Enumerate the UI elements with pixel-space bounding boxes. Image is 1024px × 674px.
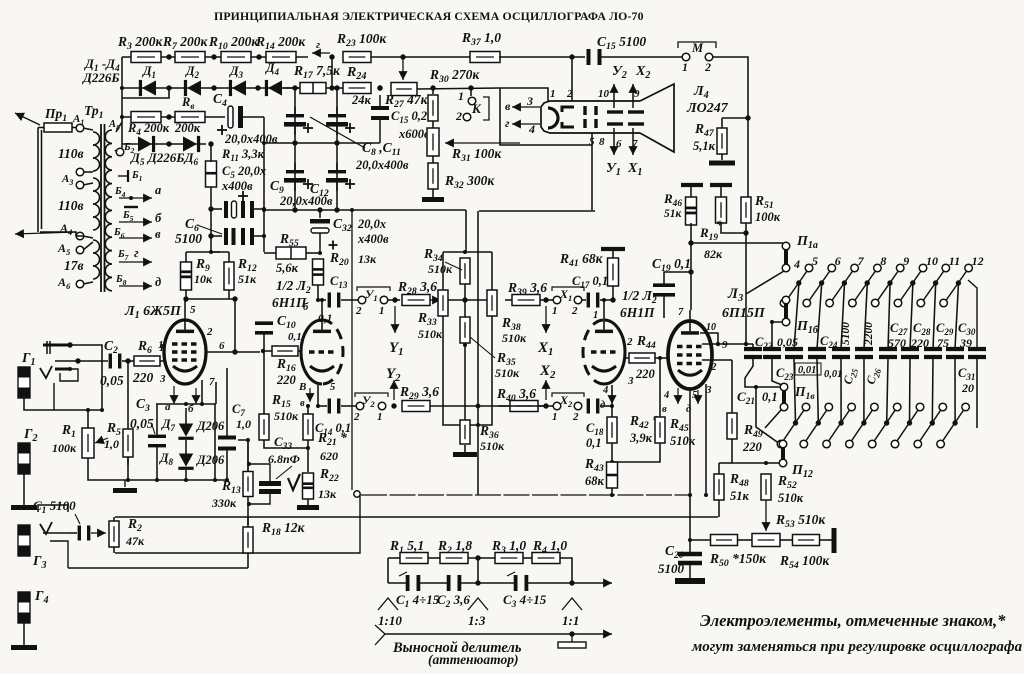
- svg-text:1: 1: [377, 411, 383, 423]
- wire pin2 lead: [215, 382, 217, 404]
- terminal X2-2: [574, 402, 582, 410]
- resistor R30 vertical: [428, 95, 438, 121]
- diode Д7: [178, 424, 193, 440]
- junction dot R21 bot: [306, 446, 310, 450]
- switch П1в contact 8 upper: [871, 403, 879, 411]
- label ЛО247: [686, 101, 729, 116]
- junction dots node299: [183, 296, 237, 301]
- wire HV bus y210: [264, 209, 466, 211]
- label Б2: [123, 142, 135, 155]
- label R4 200к: [127, 121, 170, 137]
- switch П1в contact 9 upper: [893, 403, 901, 411]
- junction dot C18R42: [610, 404, 614, 408]
- label 2 x2: [572, 411, 579, 423]
- wire R42 bottom: [611, 443, 613, 462]
- label Д4: [265, 61, 280, 77]
- arrow att out2: [572, 629, 612, 638]
- label 1 y1: [379, 305, 385, 317]
- label R28 3,6: [397, 279, 437, 297]
- label R1: [61, 422, 76, 440]
- label Л4: [693, 84, 709, 101]
- svg-text:47к: 47к: [125, 534, 145, 548]
- capacitor C3 0,05: [148, 435, 166, 448]
- label A3: [61, 173, 73, 187]
- pointer C1: [75, 514, 80, 524]
- switch П1в contact 10 upper: [916, 403, 924, 411]
- terminal A5: [76, 246, 84, 254]
- tap Б5 bar: [124, 206, 138, 208]
- wire shield y412: [24, 398, 102, 410]
- cap bar R47: [709, 161, 735, 166]
- label R23 100к: [336, 31, 387, 49]
- label R19 star: [716, 217, 723, 232]
- wire C6 stub: [211, 235, 222, 237]
- svg-text:4: 4: [793, 257, 800, 271]
- wire R50 to R53: [738, 539, 752, 541]
- wire П1в arm down: [765, 410, 781, 428]
- CRT plate Y bottom: [607, 122, 623, 125]
- switch П1в contact 6 lower: [800, 440, 808, 448]
- label C17 0,1: [572, 274, 608, 290]
- label R27 47к: [384, 92, 429, 110]
- svg-text:100к: 100к: [52, 441, 77, 455]
- label 10 pin Л3: [706, 322, 716, 333]
- label pin6 Л1: [219, 340, 225, 352]
- label R36: [479, 423, 499, 441]
- wire C16 to M: [601, 56, 682, 58]
- wire C31 bottom: [976, 359, 978, 428]
- wire R19 top: [720, 185, 722, 197]
- resistor R7 200к: [175, 52, 205, 63]
- capacitor bank C29: [924, 349, 942, 357]
- label Rв 200к: [174, 121, 201, 135]
- wire C19 down: [663, 296, 665, 318]
- switch П1в contact 7 upper: [848, 403, 856, 411]
- tap г arrow: [119, 257, 152, 266]
- junction dot П1б: [770, 320, 774, 324]
- capacitor C5 20,0x400в: [224, 191, 264, 218]
- junction dots diode row: [166, 54, 261, 90]
- wire R42 top: [611, 406, 613, 418]
- wire R12 bottom: [228, 290, 230, 299]
- label C14 0,1: [315, 421, 351, 437]
- cap bar above R46: [681, 183, 703, 187]
- label Х1 crt: [627, 161, 642, 178]
- label У1 crt: [606, 161, 621, 178]
- wire D5 row y144: [122, 143, 206, 145]
- label 220: [910, 336, 929, 350]
- pointer C3: [152, 425, 155, 434]
- resistor R50 150к: [711, 535, 738, 546]
- svg-text:3: 3: [526, 94, 533, 108]
- resistor R38 510к: [487, 290, 497, 316]
- transformer primary winding upper: [93, 132, 100, 171]
- junction dot 691-243: [688, 240, 693, 245]
- junction dot Rв: [120, 86, 214, 147]
- wire cap to П1в dot 10: [909, 359, 912, 423]
- svg-text:в: в: [662, 404, 667, 415]
- label 2 y2: [353, 411, 360, 423]
- svg-text:1:3: 1:3: [468, 613, 486, 628]
- label R7 200к: [162, 34, 209, 52]
- wire Л3 cath down: [689, 389, 691, 540]
- junction dot y1: [392, 297, 397, 302]
- label R52: [777, 473, 797, 491]
- wire cap to П1в dot 6: [817, 359, 818, 423]
- label 5 pin Л2l: [330, 382, 335, 393]
- terminal bar R54: [832, 528, 837, 553]
- junction dots bus210: [262, 207, 354, 238]
- label Х2 big: [539, 363, 556, 381]
- terminal Y2-1: [378, 402, 386, 410]
- label а: [155, 183, 161, 197]
- svg-text:100к: 100к: [755, 210, 781, 224]
- label R18 12к: [261, 520, 306, 538]
- wire Л2l cath: [317, 385, 319, 406]
- label 1/2 Л2 left: [276, 278, 311, 296]
- arrow into R31: [445, 138, 520, 147]
- svg-text:ПРИНЦИПИАЛЬНАЯ ЭЛЕКТРИЧЕСКАЯ С: ПРИНЦИПИАЛЬНАЯ ЭЛЕКТРИЧЕСКАЯ СХЕМА ОСЦИЛ…: [214, 9, 644, 23]
- resistor R28 3,6: [402, 295, 430, 306]
- label Y1 big: [389, 340, 404, 358]
- svg-text:1: 1: [552, 305, 558, 317]
- label Б6: [113, 227, 125, 240]
- capacitor C12: [326, 163, 355, 191]
- label R36 val: [480, 439, 505, 453]
- label C13 val: [318, 313, 332, 325]
- label R33: [417, 310, 437, 328]
- wire R13 mid: [247, 440, 249, 472]
- resistor R17 7,5к: [300, 83, 326, 94]
- svg-text:1: 1: [458, 89, 464, 103]
- wire C2 node down: [127, 361, 129, 465]
- arrow heater в: [512, 102, 540, 111]
- wire R22 bottom: [307, 499, 309, 505]
- note line 1: [700, 611, 1006, 630]
- wire R41 top: [612, 249, 614, 258]
- label 4 crt: [528, 122, 535, 136]
- label 0,05: [777, 335, 798, 349]
- wire A6 stub: [83, 282, 93, 284]
- resistor R35 510к: [460, 317, 470, 343]
- bus y553: [115, 495, 360, 553]
- svg-text:2: 2: [572, 411, 579, 423]
- wire П12 feed: [756, 387, 780, 444]
- wire Г2 ground: [11, 474, 37, 510]
- switch arm 6: [809, 271, 830, 301]
- label 3 pin Л3: [705, 384, 712, 396]
- wire Л1 plate up: [184, 299, 186, 320]
- resistor Rв 200к: [175, 112, 205, 123]
- svg-text:510к: 510к: [418, 327, 443, 341]
- ground C20: [675, 578, 705, 584]
- wire cap to П1в dot 5: [794, 359, 796, 423]
- svg-text:2: 2: [455, 109, 462, 123]
- label П12: [791, 463, 813, 480]
- chevron 1:3: [468, 598, 488, 610]
- wire R55 left: [264, 252, 276, 254]
- resistor R48 51к: [714, 474, 724, 500]
- label R32 300к: [444, 173, 495, 191]
- pointer R34: [445, 262, 462, 270]
- junction dot g1: [67, 342, 80, 371]
- wire R4 row y117: [122, 116, 225, 118]
- wire to П1а: [691, 242, 783, 244]
- capacitor bank C22: [744, 349, 762, 357]
- cap bar above R41: [601, 247, 625, 251]
- junction dot 235-352: [232, 349, 237, 354]
- capacitor C16 5100: [587, 49, 602, 65]
- svg-text:5100: 5100: [658, 561, 685, 576]
- switch contact 6 upper: [828, 254, 841, 272]
- label Д5 Д226Б Д6: [130, 150, 199, 168]
- switch contact 8 lower: [849, 299, 857, 307]
- resistor R51 100к: [741, 197, 751, 223]
- label C33 val: [268, 452, 300, 466]
- resistor R43 68к: [607, 462, 618, 488]
- arrow into R27: [398, 57, 407, 80]
- svg-text:220: 220: [910, 336, 929, 350]
- resistor att R1 5,1: [400, 553, 428, 564]
- svg-text:6Н1П: 6Н1П: [272, 295, 307, 310]
- junction dot rblock bottom: [463, 423, 480, 427]
- label д pin Л2r: [600, 400, 605, 411]
- terminal K2: [463, 113, 471, 121]
- label R51 100к: [754, 193, 774, 211]
- resistor R47 5,1к: [717, 128, 727, 154]
- resistor R32: [428, 163, 438, 189]
- junction dot rblock: [441, 250, 494, 408]
- CRT plate Y top: [607, 110, 623, 113]
- junction dot R41C17: [610, 297, 615, 302]
- note line 2: [691, 639, 1023, 655]
- wire R44 right: [655, 357, 668, 359]
- wire diode mid: [185, 440, 187, 456]
- label 3 crt: [526, 94, 533, 108]
- label Б7: [117, 249, 130, 262]
- label R53 510к: [775, 512, 826, 530]
- label C28: [913, 321, 931, 337]
- label R46 val: [664, 208, 683, 220]
- wire R47 stub: [721, 118, 723, 128]
- label R13: [221, 478, 241, 496]
- resistor att R2 1,8: [440, 553, 468, 564]
- wire R9 R12 top rail: [186, 251, 229, 253]
- switch contact 10 lower: [894, 299, 902, 307]
- svg-text:2: 2: [571, 305, 578, 317]
- label Тр1: [84, 103, 104, 121]
- switch contact 12 upper: [965, 254, 984, 272]
- label R15 val: [274, 409, 299, 423]
- label pin10: [598, 88, 610, 100]
- wire R37 left: [403, 56, 470, 58]
- switch П1в contact 7 lower: [823, 440, 831, 448]
- wire Л2l plate up: [321, 300, 323, 320]
- label R34 val: [428, 262, 453, 276]
- junction dot 572: [569, 54, 574, 59]
- junction dot Л3 495: [688, 493, 692, 517]
- switch П1в contact 10 lower: [891, 440, 899, 448]
- capacitor bank C23: [785, 349, 803, 357]
- label Пр1: [44, 106, 67, 124]
- diode Д2: [184, 80, 201, 96]
- wire R47 bottom: [721, 154, 723, 160]
- label 1/2 Л2 right: [622, 288, 657, 306]
- wire C17 right: [600, 299, 613, 301]
- att bottom wire: [385, 633, 572, 635]
- label 75: [937, 336, 949, 350]
- svg-text:C17 0,1: C17 0,1: [572, 274, 608, 290]
- resistor R1 100к pot: [82, 428, 94, 458]
- svg-text:20,0х400в: 20,0х400в: [279, 194, 333, 208]
- wire R32 bottom: [432, 189, 434, 197]
- svg-text:2200: 2200: [863, 322, 875, 346]
- wire R29 right: [430, 405, 546, 407]
- fuse Пр1: [38, 123, 78, 132]
- wire Г1 mid to C2: [78, 360, 108, 362]
- resistor R11 3,3к: [206, 161, 217, 187]
- resistor R22 13к: [303, 473, 314, 499]
- switch П1в contact 9 lower: [868, 440, 876, 448]
- svg-text:Электроэлементы, отмеченные зн: Электроэлементы, отмеченные знаком,*: [700, 611, 1006, 630]
- label б pin Л2: [303, 302, 309, 313]
- wire R30 drop: [432, 88, 434, 94]
- wire R39 to X1: [540, 299, 554, 301]
- label в pin small: [300, 398, 305, 409]
- label C20: [665, 543, 684, 561]
- junction dot R1 top: [86, 408, 104, 412]
- capacitor bank C26: [855, 349, 873, 357]
- wire C14 left: [318, 405, 327, 407]
- wire П1а arm: [746, 271, 784, 294]
- svg-text:6: 6: [616, 138, 622, 150]
- label R22 val: [318, 487, 337, 501]
- wire C13 right: [341, 299, 359, 301]
- tube Л1 6Ж5П: [164, 320, 206, 384]
- svg-text:3: 3: [159, 373, 166, 385]
- switch П1в arm 10: [897, 410, 918, 441]
- junction dot pin9: [716, 342, 748, 346]
- resistor R3 200к: [131, 52, 161, 63]
- att wire right: [560, 558, 572, 583]
- label C4: [213, 91, 227, 109]
- label C27: [890, 321, 908, 337]
- svg-text:6: 6: [219, 340, 225, 352]
- label 2200 rot: [863, 322, 875, 346]
- svg-text:51к: 51к: [238, 272, 257, 286]
- arrow X1 down: [541, 306, 550, 333]
- label R35: [496, 350, 516, 368]
- svg-text:1: 1: [159, 343, 164, 354]
- label R52 val: [778, 491, 804, 505]
- label C15 0,25: [391, 109, 433, 125]
- label pin8: [599, 136, 605, 148]
- svg-text:2: 2: [355, 305, 362, 317]
- label R1 val: [52, 441, 77, 455]
- svg-text:1: 1: [552, 411, 558, 423]
- bracket M: [678, 42, 716, 48]
- wire П12 link: [765, 462, 780, 464]
- resistor R27 47к pot: [391, 83, 417, 96]
- terminal A2: [76, 168, 84, 176]
- svg-text:8: 8: [599, 136, 605, 148]
- wire A1 to coil: [83, 128, 93, 130]
- wire pin7 node: [156, 403, 216, 405]
- label R15: [271, 392, 291, 410]
- svg-text:8: 8: [880, 254, 886, 268]
- label 2 x1: [571, 305, 578, 317]
- diode Д1: [139, 80, 156, 96]
- resistor R6 220: [134, 356, 160, 366]
- label C31 val: [961, 381, 974, 395]
- svg-text:510к: 510к: [778, 491, 804, 505]
- label 3 pin Л2r: [627, 375, 634, 387]
- connector Г2 striped: [18, 443, 30, 474]
- resistor R5 1,0: [123, 429, 133, 457]
- wire Б2 right: [121, 144, 123, 148]
- label C9: [270, 178, 284, 196]
- label C22: [755, 335, 773, 351]
- label att C1: [396, 592, 440, 610]
- svg-text:17в: 17в: [64, 258, 84, 273]
- wire y568: [68, 567, 248, 569]
- wire C22 bottom: [772, 359, 782, 385]
- wire cap to П1в dot 7: [840, 359, 842, 423]
- svg-text:10: 10: [926, 254, 938, 268]
- label г heater: [505, 116, 510, 130]
- wire C14 right: [341, 405, 357, 407]
- arrow C1 to R2: [91, 528, 106, 537]
- capacitor bank C23: [763, 349, 781, 357]
- terminal A1: [76, 124, 84, 132]
- svg-text:г: г: [316, 39, 320, 51]
- arrow R52 to R53: [761, 500, 770, 531]
- wire R16 right: [298, 350, 302, 352]
- label Б4: [114, 186, 126, 199]
- svg-text:(аттенюатор): (аттенюатор): [428, 652, 518, 667]
- svg-text:9: 9: [634, 88, 640, 100]
- terminal M2: [705, 53, 713, 61]
- label R43 val: [585, 474, 605, 488]
- label R42 val: [629, 431, 653, 445]
- label в heater: [505, 99, 511, 113]
- terminal Y1-2: [358, 296, 366, 304]
- label C8 C11: [362, 140, 401, 158]
- label C3: [136, 396, 150, 414]
- label 4 pin Л3: [663, 390, 669, 401]
- svg-text:в: в: [300, 398, 305, 409]
- svg-text:200к: 200к: [174, 121, 201, 135]
- label R5: [106, 420, 121, 438]
- wire R16 left: [263, 350, 272, 352]
- connector Г4 striped: [18, 592, 30, 623]
- transformer primary winding mid: [93, 178, 100, 230]
- svg-text:20,0х400в: 20,0х400в: [224, 132, 278, 146]
- label R34: [423, 246, 443, 264]
- wire R51 bottom: [745, 223, 747, 344]
- wire rblock bottoms: [443, 316, 492, 425]
- label 17в: [64, 258, 84, 273]
- svg-text:д: д: [600, 400, 605, 411]
- label Д3: [229, 64, 244, 80]
- label R54 100к: [779, 553, 830, 571]
- wire C5 stub: [211, 208, 222, 210]
- svg-text:г: г: [134, 246, 139, 260]
- label Л3: [727, 286, 743, 304]
- terminal A4: [76, 232, 84, 240]
- label 2 pin Л3: [710, 361, 717, 373]
- switch П1в contact 12 upper: [962, 403, 970, 411]
